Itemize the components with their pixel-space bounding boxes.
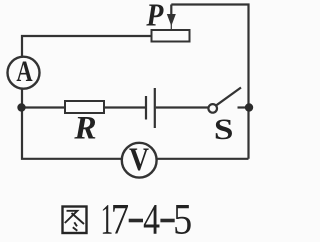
svg-text:5: 5 — [173, 195, 192, 242]
svg-text:A: A — [16, 54, 32, 88]
svg-text:R: R — [73, 109, 96, 146]
svg-text:P: P — [145, 0, 164, 33]
svg-text:4: 4 — [143, 197, 160, 242]
svg-text:7: 7 — [111, 195, 129, 242]
svg-text:S: S — [214, 113, 234, 146]
svg-text:V: V — [129, 141, 149, 178]
